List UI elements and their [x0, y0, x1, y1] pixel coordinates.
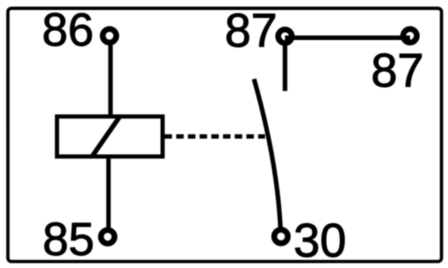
svg-text:86: 86 [42, 4, 94, 56]
svg-text:87: 87 [371, 45, 424, 98]
terminal 86 [103, 29, 117, 43]
relay coil (box with diagonal) [57, 116, 163, 157]
dashed actuation link: coil to armature [165, 134, 266, 138]
terminal 87 (first) [278, 30, 292, 44]
wire: terminal 86 to coil [108, 42, 113, 116]
wire: terminal 87 jumper to second 87 [285, 36, 410, 41]
svg-text:85: 85 [43, 213, 95, 265]
switch armature: terminal 30 to contact 87 (shown open) [254, 79, 281, 228]
terminal 30 [274, 230, 288, 244]
svg-text:87: 87 [225, 5, 277, 58]
fixed contact stub of terminal 87 [283, 42, 288, 91]
svg-text:30: 30 [294, 214, 347, 267]
wire: coil to terminal 85 [106, 157, 110, 231]
terminal 87 (second) [403, 29, 417, 43]
terminal 85 [101, 230, 115, 244]
